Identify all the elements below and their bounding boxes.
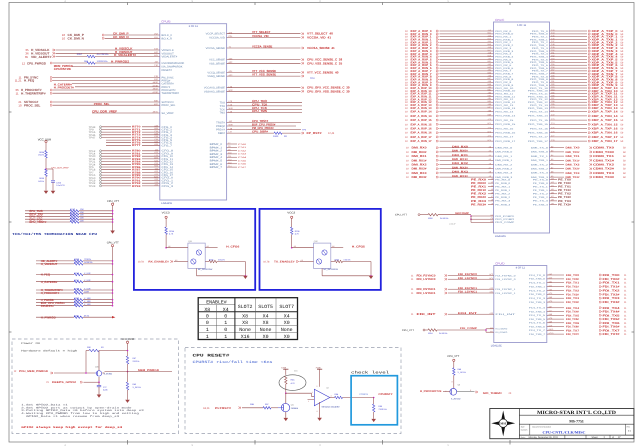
svg-text:PEG_TXB_10: PEG_TXB_10	[528, 90, 548, 92]
wire CPU_VCC_SENSE_C 38	[227, 58, 343, 62]
svg-text:11,21: 11,21	[15, 79, 22, 82]
svg-text:EXP_A_RXP_7: EXP_A_RXP_7	[411, 70, 432, 73]
svg-text:B55: B55	[488, 72, 491, 74]
svg-text:VCC3: VCC3	[162, 212, 170, 215]
svg-text:None: None	[281, 327, 293, 332]
svg-text:11: 11	[624, 314, 627, 317]
svg-text:FDI_TXB_4: FDI_TXB_4	[529, 311, 545, 313]
svg-text:XDP_A_TXP_6: XDP_A_TXP_6	[592, 64, 618, 67]
svg-text:B43: B43	[488, 38, 491, 40]
svg-text:R095: R095	[39, 177, 44, 179]
svg-text:N32: N32	[154, 160, 158, 162]
title size/custom	[521, 426, 631, 435]
svg-text:EXP_A_RXP_2: EXP_A_RXP_2	[411, 41, 432, 44]
svg-text:CPU/D: CPU/D	[495, 262, 504, 265]
svg-text:XDP_A_TXN_8: XDP_A_TXN_8	[592, 78, 618, 81]
svg-text:GPIO2 always keep high except: GPIO2 always keep high except for deep_s…	[21, 426, 122, 429]
note CPU RESET# title	[193, 354, 230, 358]
svg-text:R48: R48	[458, 368, 462, 370]
svg-text:R775: R775	[132, 139, 141, 142]
svg-text:TMS: TMS	[220, 112, 225, 115]
wire CPU_PWRGD with resistor R88	[22, 60, 160, 68]
svg-text:10: 10	[405, 64, 408, 67]
svg-text:50: 50	[621, 115, 624, 118]
svg-text:44.2R/1%: 44.2R/1%	[97, 53, 109, 55]
svg-text:PEG_RX_14: PEG_RX_14	[495, 111, 513, 113]
wire PEG_COMP	[471, 221, 514, 224]
svg-text:50: 50	[621, 53, 624, 56]
svg-text:FDI_TX2: FDI_TX2	[566, 289, 579, 292]
svg-text:FDI_INT: FDI_INT	[417, 313, 436, 316]
svg-text:50: 50	[621, 93, 624, 96]
wire CFG_11 from testpoint	[89, 157, 160, 161]
svg-text:50: 50	[621, 59, 624, 62]
wire VTT_VSS_SENSE	[227, 73, 304, 77]
svg-text:3: 3	[191, 0, 192, 2]
svg-text:A46: A46	[488, 46, 491, 48]
svg-text:FDI_TX1: FDI_TX1	[566, 282, 579, 285]
svg-text:24.9R/1%: 24.9R/1%	[439, 332, 447, 334]
svg-text:50: 50	[621, 36, 624, 39]
svg-text:XDP_A_TXN_6: XDP_A_TXN_6	[592, 67, 618, 70]
svg-text:X4: X4	[223, 307, 229, 312]
wire inverter output R94	[330, 393, 375, 399]
svg-text:U2: U2	[326, 387, 329, 389]
wire XDP_A_TXP_13	[550, 103, 624, 107]
svg-text:PE_TXB_0: PE_TXB_0	[533, 182, 548, 184]
svg-text:Date:: Date:	[521, 436, 526, 438]
svg-text:50: 50	[623, 164, 626, 167]
CPU/C DMI pin names row 4	[495, 164, 548, 166]
svg-text:R776: R776	[132, 142, 141, 145]
svg-text:Q4: Q4	[291, 404, 294, 406]
svg-text:PEG_TX_8: PEG_TX_8	[532, 76, 548, 78]
svg-text:FDI_TX_5: FDI_TX_5	[529, 314, 545, 316]
svg-text:1: 1	[206, 327, 209, 332]
wire PE_RX2#	[471, 196, 494, 199]
wire CFG_19 from testpoint	[89, 179, 160, 183]
svg-text:EXP_A_RXP_15: EXP_A_RXP_15	[411, 119, 432, 122]
svg-text:TP12: TP12	[89, 150, 96, 153]
box outline	[134, 209, 255, 290]
svg-text:50: 50	[621, 132, 624, 135]
svg-text:EXP_A_RXN_12: EXP_A_RXN_12	[411, 101, 432, 104]
CPU/C PE pin names row 2	[495, 186, 548, 188]
svg-text:R774: R774	[132, 136, 141, 139]
wire CPU_DBR# with resistor R100 to FP_RST#	[227, 129, 335, 138]
svg-text:CFG_13: CFG_13	[162, 163, 174, 166]
svg-text:R260: R260	[428, 217, 433, 219]
svg-text:C15: C15	[294, 370, 298, 372]
svg-text:XDP_A_TXN_0: XDP_A_TXN_0	[592, 33, 618, 36]
svg-text:4.7K: 4.7K	[295, 233, 299, 235]
resistor R172 termination CPU_TMS	[25, 208, 113, 212]
svg-text:FDI_FSYNC_0: FDI_FSYNC_0	[495, 275, 515, 277]
svg-text:CFG_0: CFG_0	[162, 177, 174, 180]
CPU/C DMI pin names row 6	[495, 172, 548, 174]
wire CDMI_TX0	[550, 146, 626, 150]
wire XDP_A_TXN_8	[550, 78, 624, 82]
svg-text:PM_SYNC: PM_SYNC	[162, 77, 174, 80]
svg-text:EXP_A_RXN_2: EXP_A_RXN_2	[411, 44, 432, 47]
svg-text:PEG_RXB_12: PEG_RXB_12	[495, 101, 515, 103]
wire CPU_DDR_VREF to SA_VREF pin	[92, 110, 160, 113]
svg-text:VTT_VCC_SENSE: VTT_VCC_SENSE	[252, 70, 276, 73]
svg-text:R100: R100	[273, 135, 278, 137]
wire EXP_A_RXN_11	[405, 95, 494, 99]
stub PE_TX2	[550, 192, 572, 195]
svg-text:PEG_TXB_16: PEG_TXB_16	[528, 132, 548, 134]
svg-text:FDI_COMPIO: FDI_COMPIO	[495, 328, 507, 330]
svg-text:CPURST# rise/fall time <6ns: CPURST# rise/fall time <6ns	[193, 360, 273, 364]
svg-text:H_VIDSOUT: H_VIDSOUT	[115, 50, 133, 53]
svg-text:VTT_VSS_SENSE: VTT_VSS_SENSE	[252, 73, 276, 76]
svg-text:10: 10	[405, 90, 408, 93]
svg-text:DMI_RX0: DMI_RX0	[452, 145, 468, 148]
wire FDI_FSYNC0	[411, 273, 516, 277]
svg-text:EXP_A_RXP_14: EXP_A_RXP_14	[411, 111, 432, 114]
resistor R87 220	[126, 356, 139, 372]
wire FDI_TX6#	[529, 325, 627, 329]
svg-text:2: 2	[312, 391, 313, 393]
svg-text:TP21: TP21	[89, 161, 96, 164]
svg-text:BPM#_0: BPM#_0	[210, 143, 223, 146]
dashed box CPU RESET#	[185, 348, 401, 434]
svg-text:LGA1155: LGA1155	[495, 235, 506, 238]
svg-text:AB32: AB32	[153, 88, 158, 90]
svg-text:50: 50	[621, 107, 624, 110]
svg-text:50: 50	[621, 73, 624, 76]
wire PLTRST# input with resistor R9B	[203, 403, 278, 409]
svg-text:X_1R8: X_1R8	[84, 297, 91, 299]
svg-text:GRCOMP: GRCOMP	[455, 212, 469, 215]
wire CFG_9 from testpoint	[89, 152, 160, 156]
svg-text:XDP_A_TXP_12: XDP_A_TXP_12	[592, 98, 618, 101]
stub PE_TX1	[550, 185, 572, 188]
CPU/B left pin names	[162, 34, 185, 115]
svg-text:50: 50	[621, 64, 624, 67]
svg-text:R94: R94	[335, 393, 339, 395]
resistor R173 termination CPU_TDI	[25, 211, 113, 215]
svg-text:TP5: TP5	[302, 129, 306, 131]
resistor R260 24.9R	[428, 214, 471, 220]
CPU/C PE pin names row 6	[495, 200, 548, 202]
svg-text:VCCSA_VID 41: VCCSA_VID 41	[307, 36, 331, 39]
wire FDI_TX2	[529, 289, 627, 293]
svg-text:1: 1	[224, 321, 227, 326]
svg-text:10: 10	[405, 36, 408, 39]
svg-text:CDMI_TX2#: CDMI_TX2#	[593, 168, 614, 171]
svg-text:50: 50	[623, 168, 626, 171]
svg-text:FDI_TX0#: FDI_TX0#	[603, 278, 620, 281]
svg-text:PEG_RXB_6: PEG_RXB_6	[495, 67, 513, 69]
svg-text:A66: A66	[488, 103, 491, 105]
svg-text:PE_RXB_3: PE_RXB_3	[495, 204, 510, 206]
svg-text:21: 21	[46, 381, 49, 384]
svg-text:A56: A56	[488, 75, 491, 77]
svg-text:H_PWRGD: H_PWRGD	[41, 316, 56, 319]
svg-text:R5A: R5A	[291, 379, 295, 381]
svg-text:C27: C27	[103, 386, 107, 388]
svg-text:50: 50	[623, 172, 626, 175]
svg-text:CFG_7: CFG_7	[162, 144, 173, 147]
svg-text:11: 11	[411, 288, 414, 291]
wire XDP_A_TXP_11	[550, 92, 624, 96]
svg-text:10: 10	[405, 53, 408, 56]
svg-text:C7A5: C7A5	[238, 160, 246, 162]
svg-text:R773: R773	[132, 134, 141, 137]
svg-text:EXP_A_RXN_3: EXP_A_RXN_3	[411, 50, 432, 53]
svg-text:X32: X32	[154, 179, 157, 181]
svg-text:R176: R176	[70, 220, 75, 222]
svg-text:PEG_TXB_2: PEG_TXB_2	[530, 44, 548, 46]
svg-text:2: 2	[319, 0, 320, 2]
svg-text:50: 50	[621, 56, 624, 59]
svg-text:PEG_TXB_4: PEG_TXB_4	[530, 56, 548, 58]
svg-text:PEG_RXB_5: PEG_RXB_5	[495, 61, 513, 63]
transistor Q dual MOSFET	[314, 241, 338, 271]
svg-text:M32: M32	[154, 157, 158, 159]
svg-text:PE_RX1: PE_RX1	[471, 185, 486, 188]
svg-text:FDI_TX5: FDI_TX5	[566, 314, 579, 317]
svg-text:H_PEQ: H_PEQ	[41, 273, 50, 276]
wire EXP_A_RXP_12	[405, 98, 494, 102]
svg-text:K_BV902: K_BV902	[104, 373, 113, 375]
svg-text:R786: R786	[132, 166, 141, 169]
svg-text:CPU_TCK: CPU_TCK	[252, 107, 267, 110]
svg-text:VCCP_SELECT: VCCP_SELECT	[206, 33, 225, 36]
svg-text:GP: GP	[168, 246, 171, 248]
svg-text:DMI_RX2: DMI_RX2	[452, 162, 468, 165]
svg-text:XDP_A_TXP_10: XDP_A_TXP_10	[592, 87, 618, 90]
svg-text:PROC_SEL: PROC_SEL	[94, 102, 110, 105]
svg-text:3: 3	[191, 444, 192, 447]
svg-text:FDI_TX3: FDI_TX3	[603, 297, 620, 300]
wire CFG_10 from testpoint	[89, 154, 160, 158]
svg-text:B59: B59	[488, 83, 491, 85]
svg-text:PEG_RX_2: PEG_RX_2	[495, 41, 511, 43]
svg-text:A42: A42	[490, 327, 493, 329]
stub BPM#_6	[227, 162, 247, 165]
svg-text:11: 11	[624, 311, 627, 314]
svg-text:PEG_RXB_16: PEG_RXB_16	[495, 132, 515, 134]
CPU/C PE pin names row 7	[495, 204, 548, 206]
wire FDI_TX3	[529, 296, 627, 300]
svg-text:CPU RESET#: CPU RESET#	[193, 354, 230, 358]
wire EXP_A_RXP_2	[405, 41, 494, 45]
wire CFG_18 from testpoint	[89, 176, 160, 180]
svg-text:A8: A8	[489, 171, 491, 173]
wire EXP_A_RXN_2	[405, 43, 494, 47]
svg-text:PEG_RXB_14: PEG_RXB_14	[495, 115, 515, 117]
resistor R175 termination CPU_TCK	[25, 217, 113, 221]
svg-text:J32: J32	[154, 61, 157, 63]
svg-text:DMI_RX2: DMI_RX2	[412, 163, 427, 166]
wire CDMI_TX2#	[550, 167, 626, 171]
resistor R5A 4.7K in ellipse	[279, 370, 306, 394]
svg-text:J32: J32	[155, 149, 158, 151]
wire H_CATERR#	[54, 81, 160, 86]
svg-text:PEG_TXB_7: PEG_TXB_7	[530, 73, 548, 75]
svg-text:SA_VREF: SA_VREF	[162, 112, 174, 115]
svg-text:CPURST#: CPURST#	[41, 304, 54, 307]
wire FDI_TX1	[529, 281, 627, 285]
svg-text:2.Set GPIO2 port as output by: 2.Set GPIO2 port as output by open-drain…	[21, 406, 131, 409]
wire PEG_ICOMPO	[471, 214, 514, 217]
svg-text:A44: A44	[488, 41, 491, 43]
svg-text:TP23: TP23	[89, 185, 96, 188]
svg-text:L7: L7	[491, 196, 493, 198]
svg-text:GP: GP	[301, 260, 304, 262]
wire EXP_A_RXP_6	[405, 63, 494, 67]
wire PEG_ICOMPI	[471, 217, 514, 220]
wire EXP_A_RXN_17	[405, 139, 494, 143]
wire XDP_A_TXN_11	[550, 95, 624, 99]
svg-text:50: 50	[621, 70, 624, 73]
svg-text:XDP_A_TXP_11: XDP_A_TXP_11	[592, 93, 618, 96]
svg-text:PEG_TXB_14: PEG_TXB_14	[528, 115, 548, 117]
wire FDI_TX3#	[529, 300, 627, 304]
svg-text:1K/1%: 1K/1%	[38, 154, 44, 156]
svg-text:XDP_A_TXN_15: XDP_A_TXN_15	[592, 123, 618, 126]
svg-text:10K: 10K	[80, 211, 84, 213]
wire H_VIDSCLK	[25, 47, 159, 52]
svg-text:FDI_TX3: FDI_TX3	[566, 297, 579, 300]
svg-text:H_CATERR#: H_CATERR#	[54, 83, 72, 86]
resistor R333 pullup BUF_CPU_PROX#	[36, 300, 113, 304]
svg-text:R66: R66	[74, 303, 78, 305]
svg-text:37: 37	[618, 436, 621, 439]
svg-text:DBR#: DBR#	[218, 132, 225, 135]
svg-text:VTT_SELECT 40: VTT_SELECT 40	[307, 32, 333, 35]
wire CFG_21 from testpoint	[89, 184, 160, 188]
svg-text:R67: R67	[74, 291, 78, 293]
wire EXP_A_RXN_13	[405, 106, 494, 110]
wire XDP_A_TXP_0	[550, 29, 624, 33]
svg-text:10: 10	[405, 59, 408, 62]
svg-text:FDI_TX7#: FDI_TX7#	[566, 333, 579, 336]
svg-text:R21B: R21B	[74, 288, 79, 290]
svg-text:C7A0: C7A0	[238, 143, 246, 145]
wire XDP_A_TXP_7	[550, 69, 624, 73]
wire XDP_A_TXN_2	[550, 43, 624, 47]
wire CPU_GFX_VSS_SENSE_C 39	[227, 89, 350, 93]
svg-text:TP11: TP11	[89, 158, 96, 161]
svg-text:PE_TX_2: PE_TX_2	[533, 193, 548, 195]
svg-text:10: 10	[405, 132, 408, 135]
transistor Q30	[95, 351, 112, 383]
svg-text:G3,20: G3,20	[203, 407, 209, 410]
svg-text:X8: X8	[242, 314, 248, 319]
svg-text:B69: B69	[488, 114, 491, 116]
svg-text:Q32: Q32	[314, 241, 318, 243]
svg-text:R781: R781	[132, 152, 141, 155]
svg-text:EXP_A_RXN_5: EXP_A_RXN_5	[411, 61, 432, 64]
wire FDI_COMP with resistor R204	[402, 327, 507, 334]
svg-text:VCC_DDR: VCC_DDR	[121, 338, 134, 341]
svg-text:PEG_TX_14: PEG_TX_14	[530, 111, 548, 113]
svg-text:PEG_TX_17: PEG_TX_17	[530, 136, 548, 138]
svg-text:50: 50	[621, 33, 624, 36]
svg-text:TRST#: TRST#	[216, 122, 225, 125]
svg-text:BPM#_5: BPM#_5	[210, 160, 223, 163]
wire XDP_A_TXN_1	[550, 38, 624, 42]
svg-text:FDI_ICOMPO: FDI_ICOMPO	[495, 332, 507, 334]
svg-text:A6: A6	[489, 163, 491, 165]
svg-text:L37: L37	[229, 131, 233, 133]
wire EXP_A_RXN_10	[405, 89, 494, 93]
wire EXP_A_RXP_13	[405, 103, 494, 107]
stub PE_TX3	[550, 199, 572, 202]
resistor R210 pullup H_PEQ	[36, 272, 113, 276]
svg-text:CPU_VSS_SENSE_C 35: CPU_VSS_SENSE_C 35	[307, 62, 342, 65]
svg-text:A70: A70	[488, 118, 491, 120]
svg-text:TCK: TCK	[220, 108, 225, 111]
svg-text:5u36: 5u36	[103, 389, 108, 391]
wire XDP_A_TXP_14	[550, 110, 624, 114]
svg-text:R785: R785	[132, 163, 141, 166]
svg-text:VCCSA_SENSE 41: VCCSA_SENSE 41	[307, 47, 335, 50]
ground	[243, 276, 248, 279]
note Hardware default = high	[21, 350, 77, 353]
svg-text:AE31: AE31	[153, 111, 158, 113]
svg-text:0: 0	[206, 314, 209, 319]
svg-text:CDMI_TX3: CDMI_TX3	[593, 172, 614, 175]
svg-text:MEM_PWRGD: MEM_PWRGD	[54, 64, 73, 67]
svg-text:VIDALERT#: VIDALERT#	[162, 56, 178, 59]
svg-text:X_1R8: X_1R8	[84, 303, 91, 305]
svg-text:R792: R792	[132, 182, 141, 185]
wire XDP_A_TXN_15	[550, 123, 624, 127]
svg-text:50: 50	[621, 67, 624, 70]
svg-text:R783: R783	[132, 158, 141, 161]
svg-text:DMI_RX1#: DMI_RX1#	[452, 158, 468, 161]
svg-text:PE_RX2#: PE_RX2#	[471, 196, 486, 199]
svg-text:PEG_TX_5: PEG_TX_5	[532, 59, 548, 61]
svg-text:BUF_CPU_PROX#: BUF_CPU_PROX#	[252, 123, 276, 126]
svg-text:L=mL1F: L=mL1F	[449, 223, 456, 225]
wire FDI_TX5	[529, 314, 627, 318]
wire XDP_A_TXP_17	[550, 135, 624, 139]
svg-text:H_CFG5: H_CFG5	[352, 245, 365, 248]
svg-text:FDI_INT: FDI_INT	[495, 313, 515, 315]
svg-text:A33: A33	[490, 287, 493, 289]
svg-text:B75: B75	[488, 139, 491, 141]
svg-text:K_2N7002: K_2N7002	[451, 398, 461, 400]
wire EXP_A_RXP_4	[405, 52, 494, 56]
svg-text:10K: 10K	[80, 208, 84, 210]
svg-text:Hardware default = high: Hardware default = high	[21, 350, 77, 353]
svg-text:PEG_RX_5: PEG_RX_5	[495, 59, 511, 61]
svg-text:DMI_RXB_1: DMI_RXB_1	[495, 159, 512, 161]
svg-text:RESET#: RESET#	[162, 69, 173, 72]
CPU/C PEG pin names	[495, 30, 548, 143]
svg-text:10: 10	[406, 172, 409, 175]
svg-text:FDI_TX_2: FDI_TX_2	[529, 290, 545, 292]
svg-text:B41: B41	[488, 32, 491, 34]
wire CFG_5 from testpoint	[106, 138, 160, 141]
svg-text:50: 50	[621, 123, 624, 126]
stub BPM#_7	[227, 165, 247, 168]
svg-text:FDI_TX7: FDI_TX7	[566, 329, 579, 332]
wire PE_RX1	[471, 185, 494, 188]
svg-text:Rev: Rev	[627, 426, 630, 428]
svg-text:PEG_RXB_3: PEG_RXB_3	[495, 50, 513, 52]
CPU/C PE pin names row 3	[495, 189, 548, 191]
svg-text:C7A1: C7A1	[238, 147, 246, 149]
svg-text:FDI_FSYNC1: FDI_FSYNC1	[458, 287, 477, 290]
wire CFG_7 from testpoint	[106, 143, 160, 146]
